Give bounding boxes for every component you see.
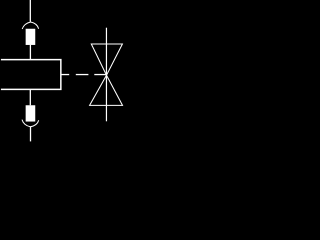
valve stem (vertical line) (105, 28, 107, 122)
valve lower triangle (90, 75, 123, 105)
wire bottom terminal (30, 127, 32, 141)
mechanical link (dashed line) segment 1 (61, 74, 69, 76)
plug-in contact arc (top) (22, 22, 38, 29)
fuse body top (filled rect) (26, 29, 35, 44)
plug-in contact arc (bottom) (22, 120, 39, 127)
device body (rectangle, open at left image edge) (1, 60, 61, 90)
wire from top fuse to device body (29, 45, 31, 60)
fuse body bottom (filled rect) (26, 106, 35, 121)
wire from device body to bottom fuse (29, 89, 31, 105)
wire top terminal (29, 0, 31, 22)
mechanical link (dashed line) segment 3 (94, 74, 106, 76)
valve upper triangle (91, 44, 122, 75)
mechanical link (dashed line) segment 2 (76, 74, 89, 76)
